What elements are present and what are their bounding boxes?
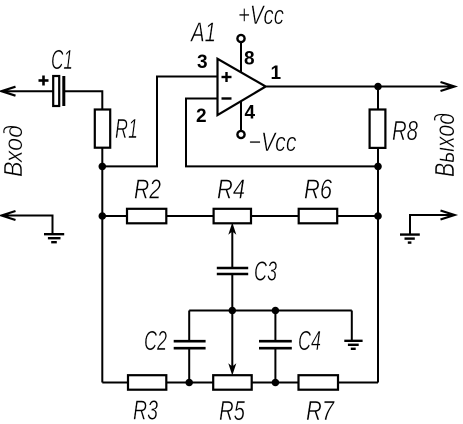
wire R1 bottom [101,148,103,167]
node junction left rail row2 [99,212,107,220]
wire pin 4 [240,101,242,131]
svg-text:3: 3 [197,52,208,73]
node junction right rail row2 [374,212,382,220]
wire to ground mid [351,311,353,341]
capacitor C1 plus sign [39,76,49,86]
node junction C2 bottom [185,379,193,387]
svg-text:R8: R8 [392,115,418,146]
svg-text:R7: R7 [306,395,335,424]
terminal -Vcc [237,131,244,138]
wire R2 to R4 [166,215,213,217]
node junction C4 branch [272,307,280,315]
svg-text:+Vcc: +Vcc [238,0,284,30]
output arrow [441,82,455,91]
wire bottom row [102,382,378,384]
ground right [400,235,420,243]
wire row2 left [102,215,127,217]
input arrow [2,87,54,96]
wire junction row [189,310,352,312]
wire C4 branch lower [274,348,276,382]
resistor R7 [299,375,339,390]
resistor R4 (potentiometer) [214,209,251,224]
ground mid [344,341,362,349]
svg-text:Выход: Выход [429,113,460,177]
wire C3 to junction [231,274,233,311]
svg-text:1: 1 [271,63,282,84]
svg-text:R4: R4 [217,174,245,205]
wire to pin 3 [102,77,217,167]
wiper arrow into R5 [229,311,235,375]
wire R6 to right rail [337,215,378,217]
node junction C4 bottom [272,379,280,387]
left ground arrow [2,211,53,234]
svg-text:C1: C1 [51,44,73,75]
capacitor C2 [174,341,206,348]
ground left [44,234,64,242]
svg-text:R5: R5 [219,395,245,424]
terminal +Vcc [237,35,244,42]
op-amp A1 [218,59,266,115]
wire left rail [101,166,103,382]
svg-text:2: 2 [196,106,207,127]
resistor R6 [299,209,338,224]
right ground arrow [410,211,455,235]
resistor R5 (potentiometer) [213,375,252,390]
resistor R1 [95,110,110,148]
node junction R1 bottom [99,163,107,171]
wire right rail [377,148,379,383]
wire output to R8 [377,87,379,110]
svg-text:C4: C4 [298,325,321,356]
node junction feedback-R8 [374,163,382,171]
svg-text:A1: A1 [190,17,216,48]
svg-text:8: 8 [244,49,255,70]
op-amp plus input mark [222,72,232,82]
wire C2 branch lower [188,348,190,382]
capacitor C4 [259,341,292,348]
svg-text:R3: R3 [133,395,158,424]
wire pin 2 feedback [186,99,378,167]
resistor R3 [128,375,166,390]
capacitor C1 [53,76,64,106]
wire C1 to R1 [65,91,103,109]
svg-text:R1: R1 [115,113,138,144]
svg-text:C2: C2 [144,325,167,356]
svg-text:4: 4 [245,103,256,124]
op-amp minus input mark [222,97,232,99]
wire output [266,86,454,88]
svg-text:R6: R6 [304,174,332,205]
resistor R8 [370,110,386,148]
wire R4 to R6 [251,215,299,217]
svg-text:R2: R2 [134,174,161,205]
node junction center [229,307,237,315]
svg-text:Вход: Вход [0,125,28,177]
svg-text:C3: C3 [254,256,277,287]
svg-text:−Vcc: −Vcc [249,127,297,157]
wiper arrow into R4 [229,224,235,267]
wire C4 branch upper [274,311,276,341]
node junction output [374,83,382,91]
resistor R2 [127,209,166,224]
wire C2 branch upper [188,311,190,341]
capacitor C3 [217,268,248,274]
wire pin 8 [240,43,242,73]
